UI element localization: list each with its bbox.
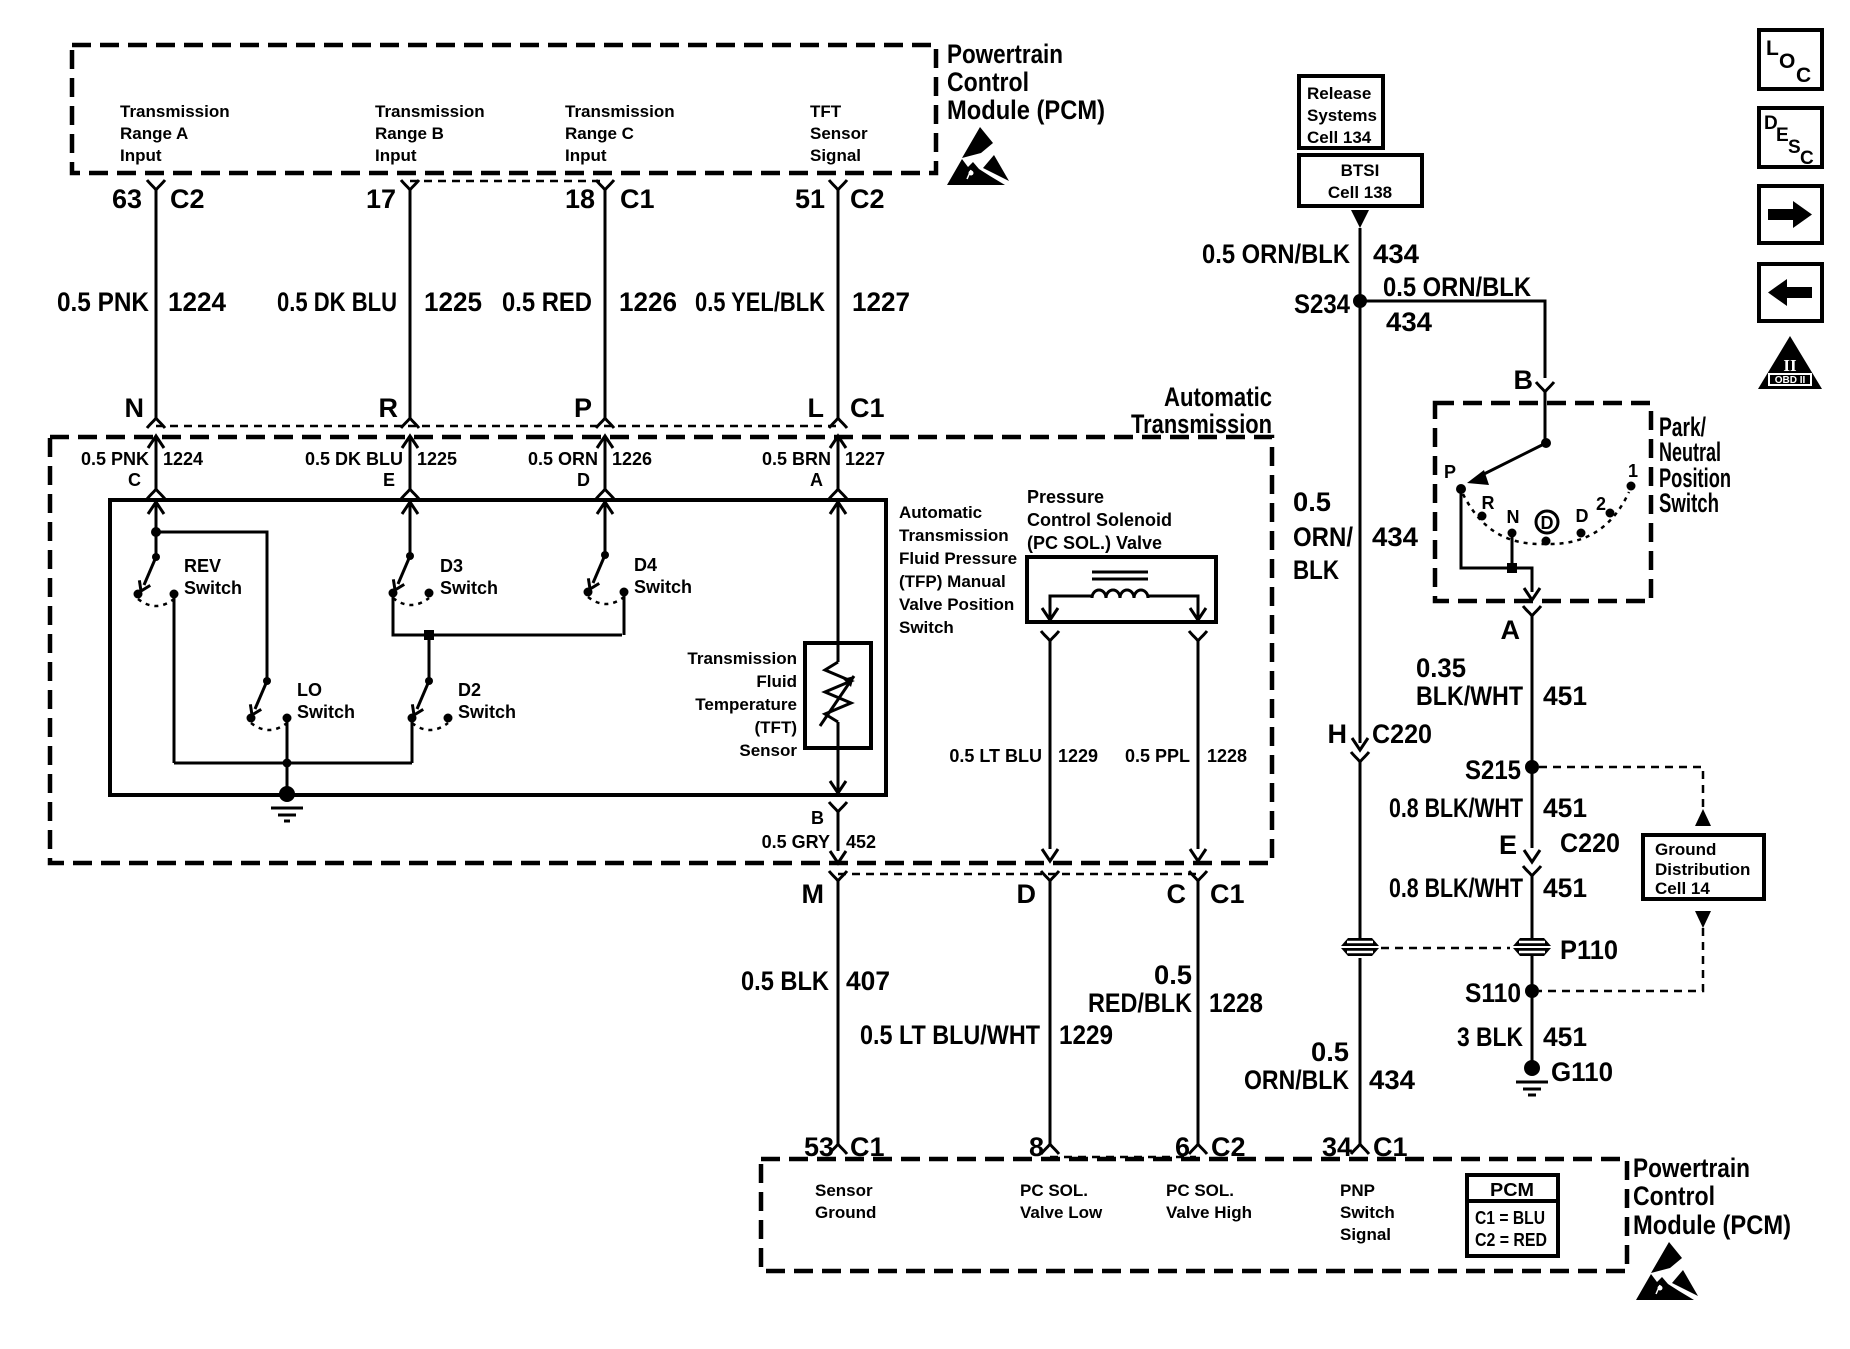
- TFT sensor box: [805, 643, 871, 748]
- svg-text:RED/BLK: RED/BLK: [1088, 988, 1192, 1018]
- svg-text:PNP: PNP: [1340, 1181, 1375, 1200]
- label PC SOL. Valve Low: [1020, 1181, 1103, 1222]
- node L C1: [808, 393, 885, 428]
- title Park/Neutral Position Switch: [1659, 412, 1731, 518]
- terminal 63 C2: [112, 180, 205, 214]
- svg-text:P110: P110: [1560, 935, 1618, 965]
- terminal B wire 452: [762, 802, 876, 863]
- svg-text:Ground: Ground: [1655, 840, 1716, 859]
- connector H C220: [1328, 719, 1433, 762]
- wire D2 to ground bus: [411, 722, 414, 763]
- junction D3/D4 to D2: [424, 630, 434, 681]
- PNP wire P to A: [1461, 489, 1540, 600]
- svg-text:Switch: Switch: [1340, 1203, 1395, 1222]
- svg-text:C1: C1: [1210, 879, 1245, 909]
- svg-text:Fluid Pressure: Fluid Pressure: [899, 549, 1017, 568]
- PNP contact P: [1444, 462, 1466, 494]
- svg-text:0.8 BLK/WHT: 0.8 BLK/WHT: [1389, 793, 1523, 823]
- svg-text:D3: D3: [440, 556, 463, 576]
- wire junction to LO switch: [156, 532, 267, 681]
- wire 1228 valve high: [1125, 631, 1247, 861]
- svg-text:E: E: [383, 470, 395, 490]
- svg-text:C: C: [1796, 64, 1811, 87]
- connector link dashed 8-6: [1050, 1156, 1196, 1159]
- svg-text:S215: S215: [1465, 755, 1521, 785]
- svg-text:II: II: [1783, 356, 1797, 375]
- label Transmission Range B Input: [375, 102, 485, 165]
- wire 434 BTSI to S234: [1202, 228, 1419, 301]
- wire 451 E to P110: [1389, 873, 1587, 940]
- svg-text:1227: 1227: [852, 287, 910, 317]
- svg-text:0.5 ORN/BLK: 0.5 ORN/BLK: [1383, 272, 1531, 302]
- svg-text:Module (PCM): Module (PCM): [1633, 1210, 1791, 1240]
- svg-text:P: P: [1444, 462, 1456, 482]
- dashed S215 to ground distribution: [1539, 767, 1711, 826]
- svg-text:D4: D4: [634, 555, 657, 575]
- svg-text:D2: D2: [458, 680, 481, 700]
- svg-text:REV: REV: [184, 556, 221, 576]
- svg-text:ORN/BLK: ORN/BLK: [1244, 1065, 1349, 1095]
- svg-text:Transmission: Transmission: [687, 649, 797, 668]
- label TFT sensor: [687, 649, 797, 760]
- terminal 6 C2: [1175, 1132, 1246, 1162]
- svg-text:C: C: [1800, 148, 1814, 169]
- svg-text:PC SOL.: PC SOL.: [1020, 1181, 1088, 1200]
- icon LOC: [1759, 30, 1822, 89]
- svg-text:0.5 DK BLU: 0.5 DK BLU: [305, 449, 403, 469]
- terminal B of PNP: [1514, 365, 1555, 443]
- wire 1225 PCM to transmission: [277, 190, 482, 418]
- terminal A wire 451: [1416, 606, 1587, 767]
- wire 407 sensor ground: [741, 881, 890, 1144]
- terminal 17: [366, 180, 419, 214]
- svg-text:451: 451: [1543, 681, 1587, 711]
- svg-text:D: D: [1017, 879, 1037, 909]
- svg-text:E: E: [1499, 830, 1517, 860]
- wire LO to ground bus: [286, 722, 289, 763]
- label Transmission Range A Input: [120, 102, 230, 165]
- svg-text:G110: G110: [1551, 1057, 1613, 1087]
- svg-text:Switch: Switch: [184, 578, 242, 598]
- svg-text:Distribution: Distribution: [1655, 860, 1750, 879]
- wire 434 branch to PNP B: [1360, 272, 1545, 378]
- svg-text:0.5 LT BLU: 0.5 LT BLU: [949, 746, 1042, 766]
- splice S234: [1294, 289, 1367, 319]
- wire 1224 PCM to transmission: [57, 190, 226, 418]
- TFP manual valve position switch box: [110, 500, 886, 795]
- svg-text:Fluid: Fluid: [756, 672, 797, 691]
- svg-text:Cell 134: Cell 134: [1307, 128, 1372, 147]
- svg-text:Valve Position: Valve Position: [899, 595, 1014, 614]
- svg-text:Signal: Signal: [810, 146, 861, 165]
- svg-text:A: A: [1501, 615, 1521, 645]
- switch D2: [408, 677, 453, 730]
- wire 434 to PCM: [1244, 958, 1415, 1144]
- svg-text:L: L: [808, 393, 825, 423]
- title Automatic Transmission: [1131, 382, 1272, 439]
- svg-text:C1: C1: [620, 184, 655, 214]
- ground G110: [1516, 1057, 1613, 1095]
- thermistor TFT sensor: [820, 662, 854, 726]
- dashed link grommet to P110: [1381, 947, 1510, 950]
- svg-text:PC SOL.: PC SOL.: [1166, 1181, 1234, 1200]
- svg-text:Control: Control: [947, 67, 1029, 97]
- wire into D4 switch: [597, 502, 613, 555]
- PCM top dashed box: [72, 45, 936, 173]
- wire 451 S110 to G110: [1457, 991, 1587, 1068]
- wire D3 to junction bus: [393, 597, 622, 635]
- PNP contact D: [1576, 506, 1589, 538]
- svg-text:451: 451: [1543, 793, 1587, 823]
- svg-text:Ground: Ground: [815, 1203, 876, 1222]
- svg-text:0.5 DK BLU: 0.5 DK BLU: [277, 287, 397, 317]
- svg-text:OBD II: OBD II: [1775, 375, 1806, 386]
- solenoid coil L1: [1092, 572, 1148, 598]
- svg-text:D: D: [1541, 513, 1554, 533]
- PCM connector legend box: [1467, 1175, 1558, 1256]
- wire 1229 valve low: [949, 631, 1098, 861]
- wire 1228 to PCM: [1088, 881, 1263, 1144]
- svg-text:0.5 PNK: 0.5 PNK: [81, 449, 149, 469]
- PNP contact R: [1478, 493, 1495, 521]
- svg-text:Cell 138: Cell 138: [1328, 183, 1392, 202]
- svg-text:C2 = RED: C2 = RED: [1475, 1230, 1547, 1250]
- switch D3: [389, 552, 434, 605]
- PNP contact 2: [1596, 494, 1615, 518]
- node P: [574, 393, 614, 428]
- svg-text:63: 63: [112, 184, 142, 214]
- svg-text:434: 434: [1372, 522, 1418, 552]
- terminal 18 C1: [565, 180, 655, 214]
- label TFT Sensor Signal: [810, 102, 868, 165]
- svg-text:1228: 1228: [1207, 746, 1247, 766]
- svg-text:S234: S234: [1294, 289, 1350, 319]
- svg-text:451: 451: [1543, 873, 1587, 903]
- svg-text:0.5 ORN: 0.5 ORN: [528, 449, 598, 469]
- svg-text:Input: Input: [120, 146, 162, 165]
- svg-text:1224: 1224: [168, 287, 226, 317]
- Ground Distribution Cell 14 box: [1643, 835, 1764, 899]
- svg-text:0.8 BLK/WHT: 0.8 BLK/WHT: [1389, 873, 1523, 903]
- svg-text:1226: 1226: [612, 449, 652, 469]
- switch REV: [134, 553, 179, 606]
- label REV Switch: [184, 556, 242, 598]
- wire 1229 to PCM: [860, 881, 1113, 1144]
- terminal E wire 1225: [305, 436, 457, 499]
- svg-text:3 BLK: 3 BLK: [1457, 1022, 1523, 1052]
- svg-text:L: L: [1766, 37, 1779, 60]
- grommet connector left: [1341, 938, 1379, 956]
- svg-text:Powertrain: Powertrain: [1633, 1153, 1750, 1183]
- svg-text:Sensor: Sensor: [810, 124, 868, 143]
- label PC SOL. Valve High: [1166, 1181, 1252, 1222]
- label TFP switch: [899, 503, 1017, 637]
- svg-text:S: S: [1788, 137, 1801, 158]
- svg-text:(PC SOL.) Valve: (PC SOL.) Valve: [1027, 533, 1162, 553]
- svg-text:434: 434: [1369, 1065, 1415, 1095]
- wire into D3 switch: [402, 502, 418, 556]
- svg-text:B: B: [811, 808, 824, 828]
- Park/Neutral Position Switch dashed box: [1435, 403, 1651, 601]
- svg-text:Control: Control: [1633, 1181, 1715, 1211]
- svg-text:Transmission: Transmission: [1131, 409, 1272, 439]
- label Transmission Range C Input: [565, 102, 675, 165]
- svg-text:1224: 1224: [163, 449, 203, 469]
- ESD symbol top: [947, 127, 1009, 185]
- svg-text:B: B: [1514, 365, 1534, 395]
- connector E C220: [1499, 828, 1620, 876]
- svg-text:D: D: [1576, 506, 1589, 526]
- switch LO: [247, 677, 292, 730]
- svg-text:C1 = BLU: C1 = BLU: [1475, 1208, 1545, 1228]
- Release Systems Cell 134 box: [1299, 76, 1383, 148]
- svg-text:0.5: 0.5: [1311, 1037, 1349, 1067]
- wire TFT sensor to B: [830, 722, 846, 793]
- terminal A wire 1227: [762, 436, 885, 499]
- svg-text:0.5 LT BLU/WHT: 0.5 LT BLU/WHT: [860, 1020, 1040, 1050]
- svg-text:Pressure: Pressure: [1027, 487, 1104, 507]
- svg-text:Powertrain: Powertrain: [947, 39, 1063, 69]
- label D2 Switch: [458, 680, 516, 722]
- svg-text:R: R: [379, 393, 399, 423]
- PNP contact D circled: [1536, 511, 1558, 546]
- svg-text:Switch: Switch: [458, 702, 516, 722]
- svg-text:E: E: [1776, 125, 1789, 146]
- svg-text:A: A: [810, 470, 823, 490]
- Automatic Transmission dashed box: [50, 437, 1272, 863]
- svg-text:Temperature: Temperature: [695, 695, 797, 714]
- svg-text:Sensor: Sensor: [815, 1181, 873, 1200]
- wire 434 S234 down: [1293, 301, 1418, 743]
- svg-text:Module (PCM): Module (PCM): [947, 95, 1105, 125]
- svg-text:Control Solenoid: Control Solenoid: [1027, 510, 1172, 530]
- svg-text:2: 2: [1596, 494, 1606, 514]
- wire REV to ground bus: [173, 598, 176, 763]
- PC SOL valve box: [1027, 557, 1216, 622]
- svg-text:Automatic: Automatic: [1164, 382, 1272, 412]
- svg-text:1225: 1225: [424, 287, 482, 317]
- svg-text:1229: 1229: [1058, 746, 1098, 766]
- svg-text:Input: Input: [375, 146, 417, 165]
- wire 1227 PCM to transmission: [695, 190, 910, 418]
- svg-text:0.5 GRY: 0.5 GRY: [762, 832, 830, 852]
- svg-text:Switch: Switch: [440, 578, 498, 598]
- wire H to grommet: [1359, 762, 1362, 940]
- svg-text:1228: 1228: [1209, 988, 1263, 1018]
- ground TFP switch: [271, 763, 303, 821]
- svg-text:0.5 RED: 0.5 RED: [502, 287, 592, 317]
- svg-text:1226: 1226: [619, 287, 677, 317]
- svg-text:Cell 14: Cell 14: [1655, 879, 1710, 898]
- svg-text:0.5 ORN/BLK: 0.5 ORN/BLK: [1202, 239, 1350, 269]
- terminal 34 C1: [1322, 1132, 1408, 1162]
- svg-text:Valve Low: Valve Low: [1020, 1203, 1103, 1222]
- splice S215: [1465, 755, 1539, 785]
- dashed ground distribution to S110: [1539, 911, 1711, 991]
- svg-text:C2: C2: [850, 184, 885, 214]
- svg-text:434: 434: [1373, 239, 1419, 269]
- connector link dashed N-L: [156, 425, 838, 428]
- svg-text:Signal: Signal: [1340, 1225, 1391, 1244]
- label Pressure Control Solenoid (PC SOL.) Valve: [1027, 487, 1172, 553]
- PNP contact arc: [1463, 492, 1629, 544]
- PNP contact N: [1507, 507, 1520, 538]
- svg-text:LO: LO: [297, 680, 322, 700]
- wire D4 to bus: [623, 596, 626, 635]
- grommet connector P110: [1513, 935, 1618, 965]
- node R: [379, 393, 420, 428]
- svg-text:18: 18: [565, 184, 595, 214]
- icon DESC: [1759, 108, 1822, 169]
- PNP contact 1: [1627, 461, 1639, 491]
- title Powertrain Control Module (PCM) bottom: [1633, 1153, 1791, 1240]
- splice S110: [1465, 954, 1539, 1008]
- svg-text:51: 51: [795, 184, 825, 214]
- connector C1 link dashed 17-18: [410, 180, 605, 183]
- svg-text:C220: C220: [1560, 828, 1620, 858]
- svg-text:1225: 1225: [417, 449, 457, 469]
- node M: [802, 871, 848, 909]
- icon OBD II: [1758, 336, 1822, 389]
- PNP wire N drop: [1507, 533, 1517, 573]
- svg-text:O: O: [1779, 50, 1795, 73]
- label LO Switch: [297, 680, 355, 722]
- svg-text:407: 407: [846, 966, 890, 996]
- solenoid lead low: [1042, 596, 1092, 620]
- svg-text:0.5: 0.5: [1154, 960, 1192, 990]
- svg-text:17: 17: [366, 184, 396, 214]
- node C C1: [1167, 871, 1245, 909]
- svg-text:H: H: [1328, 719, 1348, 749]
- svg-text:N: N: [125, 393, 145, 423]
- terminal C wire 1224: [81, 436, 203, 499]
- svg-text:Valve High: Valve High: [1166, 1203, 1252, 1222]
- svg-text:Switch: Switch: [899, 618, 954, 637]
- svg-text:N: N: [1507, 507, 1520, 527]
- svg-text:Switch: Switch: [1659, 488, 1719, 518]
- ESD symbol bottom: [1636, 1242, 1698, 1300]
- svg-text:0.5 PNK: 0.5 PNK: [57, 287, 149, 317]
- svg-text:C: C: [1167, 879, 1187, 909]
- svg-text:(TFT): (TFT): [755, 718, 797, 737]
- svg-text:0.5: 0.5: [1293, 487, 1331, 517]
- svg-text:ORN/: ORN/: [1293, 522, 1353, 552]
- wire 451 S215 to E: [1389, 767, 1587, 848]
- svg-text:TFT: TFT: [810, 102, 842, 121]
- svg-text:Range A: Range A: [120, 124, 188, 143]
- svg-text:Release: Release: [1307, 84, 1371, 103]
- svg-text:0.5 BLK: 0.5 BLK: [741, 966, 829, 996]
- svg-text:Switch: Switch: [297, 702, 355, 722]
- svg-text:C2: C2: [170, 184, 205, 214]
- wire 1226 PCM to transmission: [502, 190, 677, 418]
- svg-text:R: R: [1482, 493, 1495, 513]
- label D3 Switch: [440, 556, 498, 598]
- label PNP Switch Signal: [1340, 1181, 1395, 1244]
- node N: [125, 393, 166, 428]
- svg-text:C: C: [128, 470, 141, 490]
- svg-text:PCM: PCM: [1490, 1180, 1534, 1200]
- svg-text:BLK/WHT: BLK/WHT: [1416, 681, 1523, 711]
- svg-text:Transmission: Transmission: [565, 102, 675, 121]
- svg-text:0.5 YEL/BLK: 0.5 YEL/BLK: [695, 287, 825, 317]
- terminal 51 C2: [795, 180, 885, 214]
- label D4 Switch: [634, 555, 692, 597]
- svg-text:Automatic: Automatic: [899, 503, 982, 522]
- svg-text:Sensor: Sensor: [739, 741, 797, 760]
- svg-text:Switch: Switch: [634, 577, 692, 597]
- svg-text:C1: C1: [850, 393, 885, 423]
- label Sensor Ground: [815, 1181, 876, 1222]
- solenoid lead high: [1148, 596, 1206, 620]
- wire into REV switch: [148, 502, 164, 557]
- svg-text:451: 451: [1543, 1022, 1587, 1052]
- svg-text:BLK: BLK: [1293, 555, 1339, 585]
- ground bus wire: [174, 759, 412, 768]
- svg-text:Transmission: Transmission: [899, 526, 1009, 545]
- node D: [1017, 871, 1060, 909]
- PNP rotor arm: [1467, 438, 1551, 485]
- svg-text:Range B: Range B: [375, 124, 444, 143]
- connector link dashed M-C: [838, 873, 1198, 876]
- svg-text:S110: S110: [1465, 978, 1521, 1008]
- wire into TFT sensor: [830, 502, 846, 662]
- svg-text:0.5 PPL: 0.5 PPL: [1125, 746, 1190, 766]
- svg-text:Systems: Systems: [1307, 106, 1377, 125]
- terminal D wire 1226: [528, 436, 652, 499]
- switch D4: [584, 551, 629, 604]
- svg-text:M: M: [802, 879, 825, 909]
- svg-text:1: 1: [1628, 461, 1638, 481]
- svg-text:0.5 BRN: 0.5 BRN: [762, 449, 831, 469]
- svg-text:BTSI: BTSI: [1341, 161, 1380, 180]
- svg-text:1227: 1227: [845, 449, 885, 469]
- svg-text:(TFP) Manual: (TFP) Manual: [899, 572, 1006, 591]
- svg-text:D: D: [577, 470, 590, 490]
- terminal 53 C1: [804, 1132, 885, 1162]
- svg-text:1229: 1229: [1059, 1020, 1113, 1050]
- svg-text:Transmission: Transmission: [120, 102, 230, 121]
- svg-text:434: 434: [1386, 307, 1432, 337]
- svg-text:P: P: [574, 393, 592, 423]
- svg-text:Transmission: Transmission: [375, 102, 485, 121]
- svg-text:Range C: Range C: [565, 124, 634, 143]
- svg-text:452: 452: [846, 832, 876, 852]
- icon arrow left: [1759, 264, 1822, 321]
- arrow to BTSI: [1351, 210, 1369, 228]
- svg-text:C220: C220: [1372, 719, 1432, 749]
- title Powertrain Control Module (PCM) top: [947, 39, 1105, 125]
- terminal 8: [1029, 1132, 1059, 1162]
- svg-text:Input: Input: [565, 146, 607, 165]
- svg-text:0.35: 0.35: [1416, 653, 1466, 683]
- PCM bottom dashed box: [761, 1159, 1627, 1271]
- BTSI Cell 138 box: [1299, 155, 1422, 206]
- icon arrow right: [1759, 186, 1822, 243]
